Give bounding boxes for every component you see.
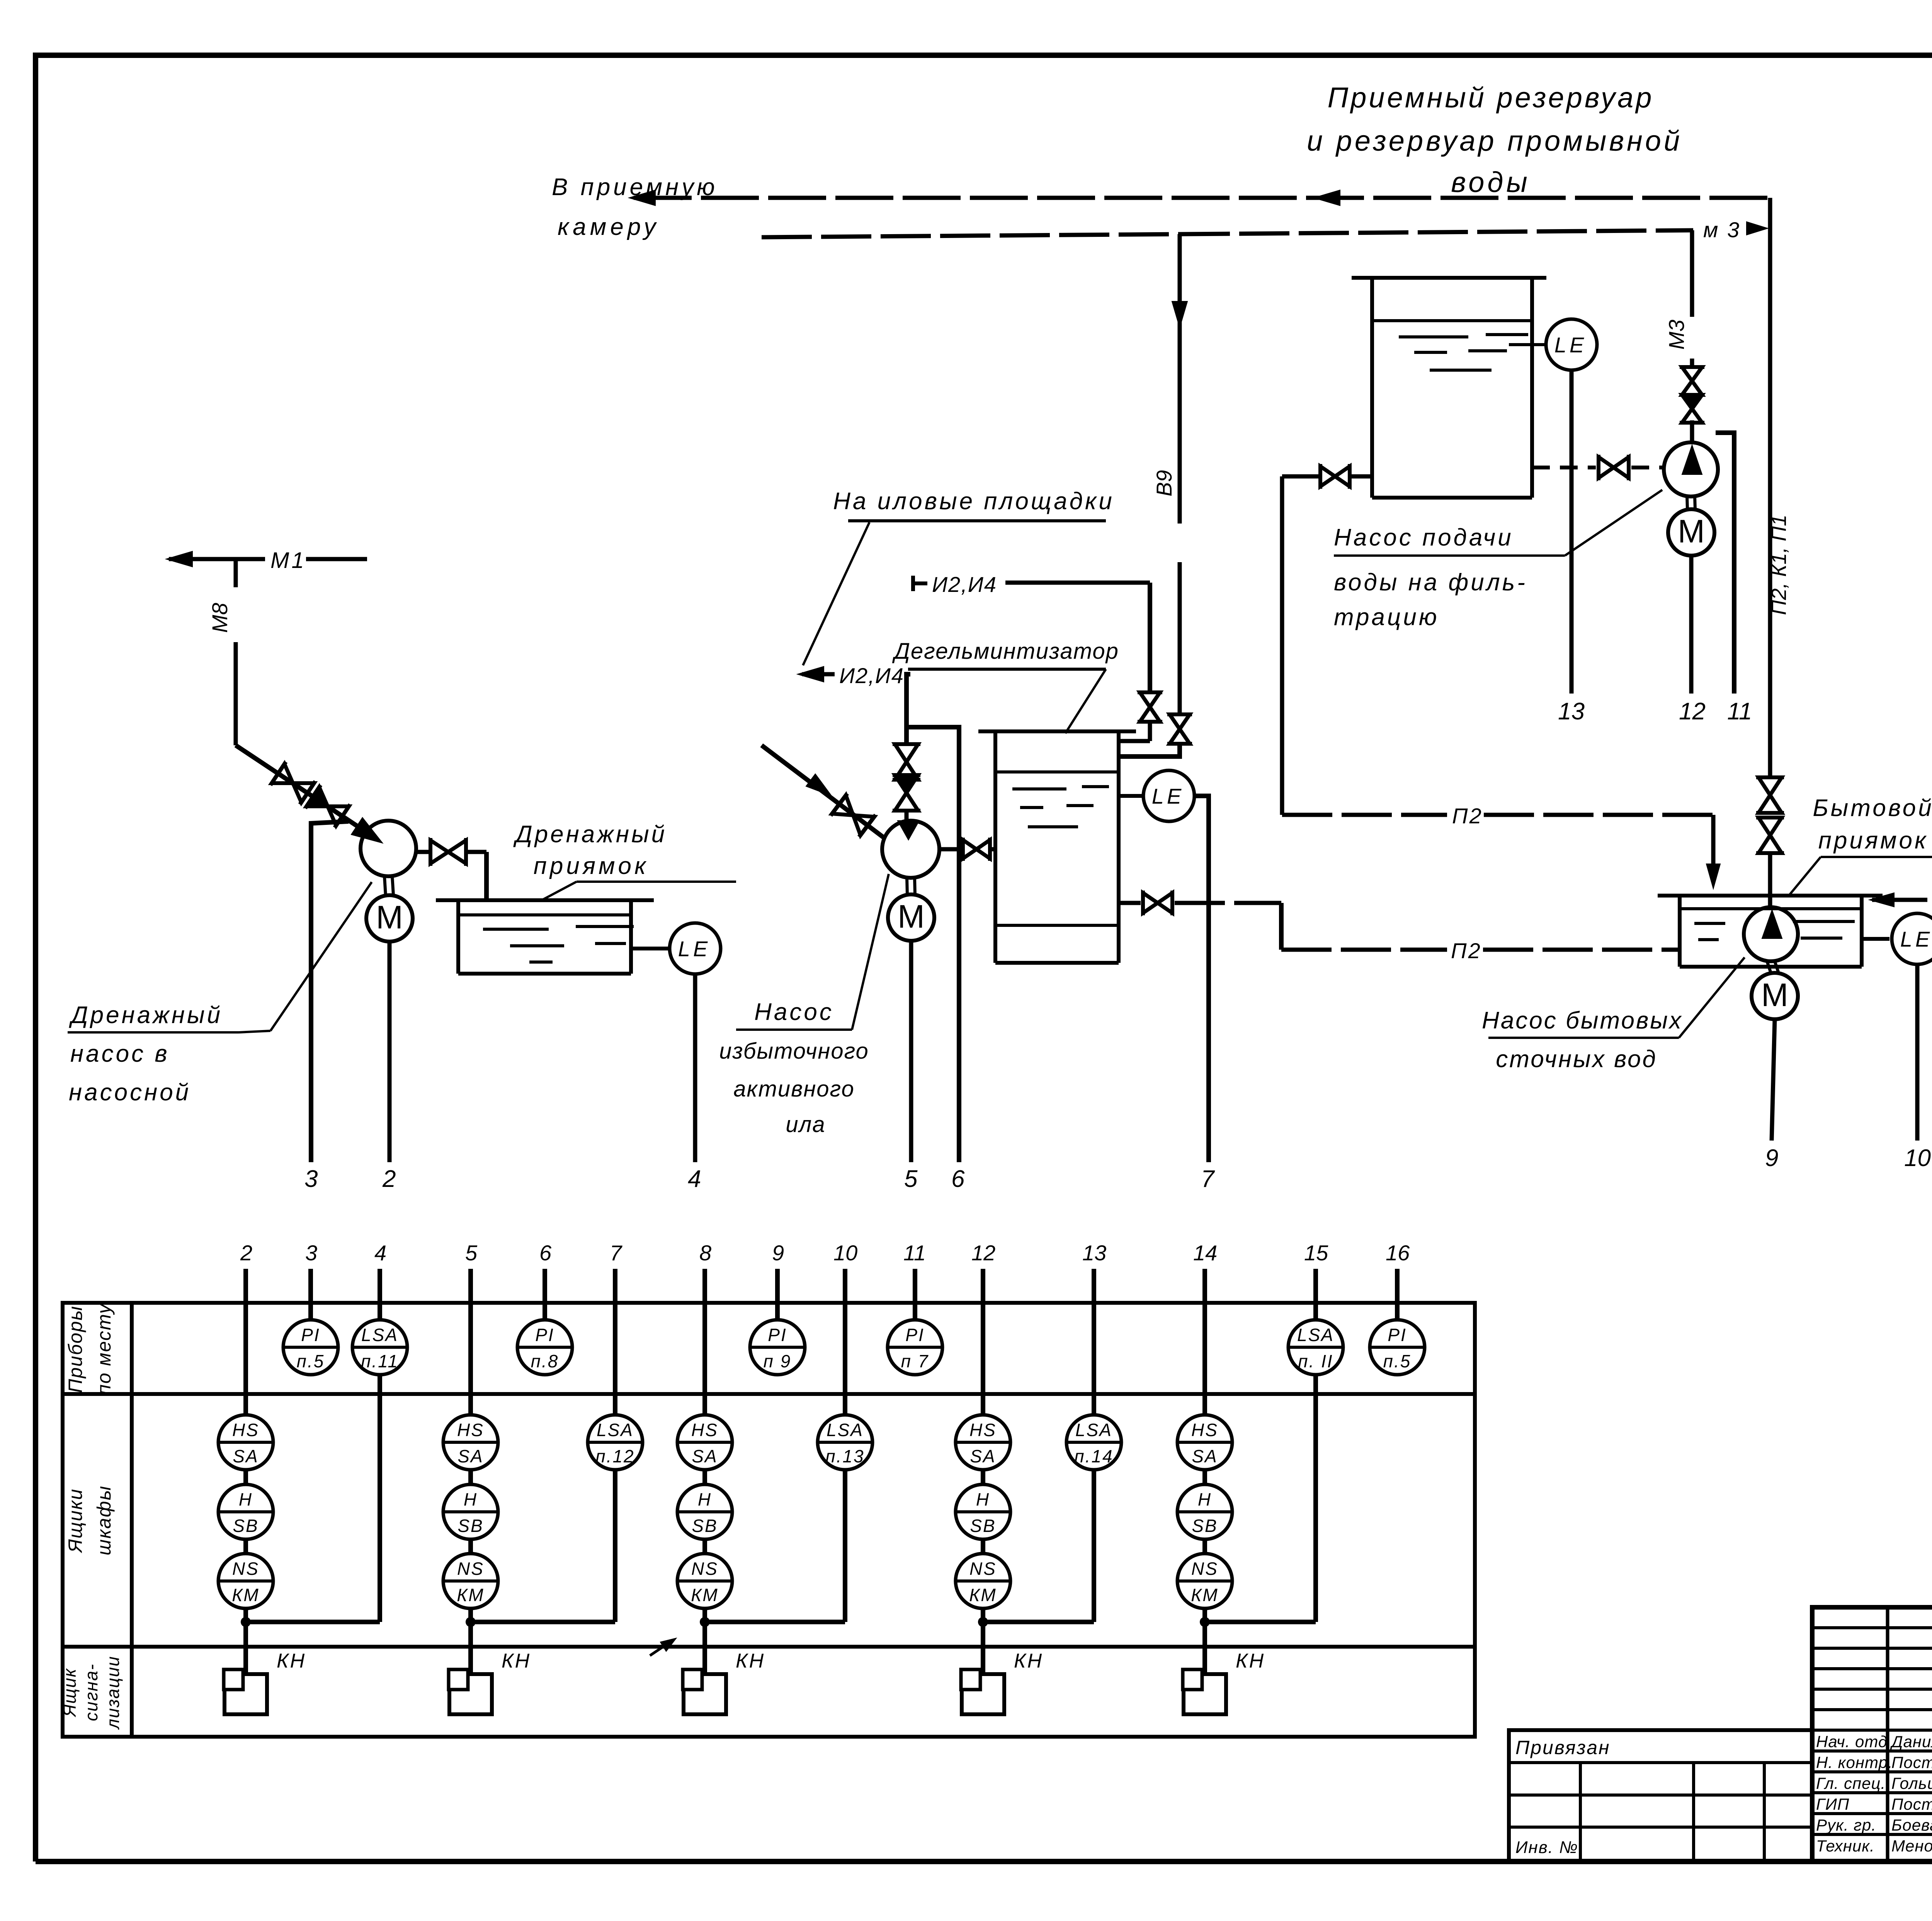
title block main outline	[1812, 1607, 1932, 1861]
wire column 15	[1313, 1269, 1318, 1320]
wire col14 a	[1202, 1470, 1207, 1484]
svg-text:п.12: п.12	[595, 1446, 634, 1466]
tank резервуар промывной воды	[1352, 276, 1546, 280]
svg-text:9: 9	[772, 1241, 784, 1265]
svg-text:SА: SА	[692, 1446, 718, 1466]
svg-text:КН: КН	[502, 1650, 531, 1672]
svg-text:Нач. отд: Нач. отд	[1816, 1732, 1888, 1751]
wire В приемную камеру main return line	[634, 196, 1770, 200]
wire col12 a	[981, 1470, 985, 1484]
instrument LE of left priyamok	[631, 947, 670, 950]
left attach table	[1509, 1730, 1812, 1861]
table label column divider	[130, 1303, 134, 1737]
underline На иловые площадки	[848, 519, 1106, 522]
wire col5 a	[468, 1470, 473, 1484]
svg-text:п.8: п.8	[531, 1351, 559, 1371]
arrow into pump P1	[351, 818, 383, 843]
pump P2 насос избыточного активного ила	[882, 821, 939, 878]
svg-text:РI: РI	[301, 1325, 320, 1345]
wire node 2 from motor P1	[388, 942, 392, 1162]
wire column 16	[1395, 1269, 1400, 1320]
arrow on В9 branch	[1172, 301, 1187, 328]
valve receiving tank left	[1320, 466, 1335, 486]
svg-text:SА: SА	[457, 1446, 483, 1466]
junction col12	[978, 1617, 988, 1627]
svg-text:Насос бытовых: Насос бытовых	[1482, 1007, 1683, 1034]
junction col2	[241, 1617, 251, 1627]
svg-text:12: 12	[1679, 698, 1706, 725]
table frame instrument strip	[63, 1303, 1475, 1737]
svg-text:Рук. гр.: Рук. гр.	[1816, 1816, 1876, 1834]
wire col4 down	[378, 1375, 382, 1622]
svg-text:На иловые площадки: На иловые площадки	[833, 488, 1114, 515]
svg-text:п 9: п 9	[764, 1351, 792, 1371]
svg-text:сточных вод: сточных вод	[1496, 1046, 1657, 1073]
svg-text:КН: КН	[277, 1650, 306, 1672]
valve on П2К1П1 riser upper	[1759, 777, 1782, 795]
svg-text:4: 4	[374, 1241, 386, 1265]
svg-text:Приемный резервуар: Приемный резервуар	[1328, 82, 1654, 114]
svg-text:М: М	[376, 899, 403, 935]
wire col2 c	[243, 1608, 248, 1674]
wire column 9	[775, 1269, 780, 1320]
svg-text:лизации: лизации	[103, 1656, 123, 1730]
svg-text:В9: В9	[1152, 470, 1176, 497]
svg-text:10: 10	[1904, 1145, 1931, 1171]
wire node 5	[909, 941, 913, 1162]
leader underline Дренажный насос	[68, 1031, 239, 1034]
svg-text:Насос: Насос	[754, 999, 834, 1025]
leader Дегельминтизатор	[1065, 669, 1106, 733]
valve P1 discharge	[430, 840, 448, 864]
svg-text:КМ: КМ	[691, 1585, 718, 1605]
arrow П2 into tank	[1706, 864, 1720, 889]
svg-text:П2: П2	[1451, 938, 1482, 963]
junction col5	[466, 1617, 476, 1627]
wire link col12-col13	[988, 1620, 1094, 1624]
svg-text:7: 7	[1201, 1166, 1215, 1192]
wire node 3 riser	[311, 821, 349, 1162]
svg-text:по месту: по месту	[93, 1303, 115, 1395]
svg-text:5: 5	[465, 1241, 478, 1265]
svg-text:Бытовой: Бытовой	[1813, 795, 1932, 821]
svg-text:Инв. №: Инв. №	[1515, 1838, 1578, 1857]
arrow М3 into riser	[1751, 226, 1759, 231]
arrow in pump P3	[1682, 445, 1702, 474]
svg-text:П2, К1, П1: П2, К1, П1	[1767, 515, 1791, 615]
svg-text:М8: М8	[207, 603, 232, 633]
svg-text:16: 16	[1386, 1241, 1410, 1265]
wire col8 b	[702, 1539, 707, 1554]
instrument NS/KM col2	[218, 1554, 273, 1608]
wire node 4 from LE	[693, 974, 697, 1162]
pump P1 дренажный насос	[361, 821, 416, 876]
wire column 6	[543, 1269, 547, 1320]
svg-text:Гл. спец.: Гл. спец.	[1816, 1774, 1886, 1792]
svg-text:п.13: п.13	[825, 1446, 864, 1466]
svg-text:избыточного: избыточного	[719, 1039, 869, 1064]
svg-text:LE: LE	[678, 937, 711, 961]
svg-text:НS: НS	[691, 1420, 718, 1440]
wire И2И4 into tank	[1119, 739, 1150, 743]
valve gate М3 riser	[1682, 367, 1702, 381]
wire М1 outfall	[169, 557, 265, 561]
svg-text:SВ: SВ	[233, 1516, 259, 1536]
wire П2 entry into бытовой приямок	[1711, 815, 1716, 865]
wire column 7	[613, 1269, 617, 1415]
svg-text:п.14: п.14	[1074, 1446, 1113, 1466]
svg-text:9: 9	[1765, 1145, 1778, 1171]
svg-text:2: 2	[382, 1166, 396, 1192]
valve check М3 riser	[1682, 395, 1702, 409]
valve P3 suction	[1599, 457, 1614, 478]
instrument HS/SA col2	[218, 1415, 273, 1470]
svg-text:И2,И4: И2,И4	[932, 572, 997, 597]
pump P3 насос подачи воды	[1664, 442, 1718, 496]
wire column 3	[308, 1269, 313, 1320]
instrument LSA п.14 col13	[1066, 1415, 1121, 1470]
svg-text:РI: РI	[905, 1325, 924, 1345]
svg-text:LSА: LSА	[1075, 1420, 1112, 1440]
svg-text:NS: NS	[1191, 1559, 1218, 1579]
wire node 13	[1570, 370, 1574, 694]
instrument HS/SA col8	[677, 1415, 732, 1470]
wire П1 into pump P4	[1768, 896, 1772, 909]
svg-text:Дренажный: Дренажный	[513, 821, 667, 848]
svg-text:м 3: м 3	[1703, 218, 1741, 242]
tank дегельминтизатор	[978, 729, 1136, 733]
wire column 12	[981, 1269, 985, 1415]
small arrow at row divider	[650, 1640, 672, 1656]
instrument LSA п.12 col7	[588, 1415, 643, 1470]
wire col5 c	[468, 1608, 473, 1674]
instrument PI п.7 col11	[888, 1320, 942, 1375]
svg-text:И2,И4: И2,И4	[839, 663, 904, 688]
wire И2,И4 riser to pump P2	[906, 674, 910, 746]
wire col13 down	[1092, 1470, 1096, 1622]
wire column 14	[1202, 1269, 1207, 1415]
valve on В9 branch	[1170, 714, 1190, 729]
motor M of P4	[1767, 962, 1771, 974]
underline Бытовой приямок leader	[1821, 856, 1932, 858]
svg-text:активного: активного	[733, 1076, 855, 1102]
svg-text:LSА: LSА	[827, 1420, 864, 1440]
junction col14	[1200, 1617, 1210, 1627]
svg-text:камеру: камеру	[558, 214, 660, 240]
svg-text:приямок: приямок	[534, 853, 649, 879]
instrument NS/KM col14	[1177, 1554, 1232, 1608]
valve check on М8 diagonal	[306, 787, 328, 806]
instrument PI п.5 col16	[1370, 1320, 1425, 1375]
svg-text:воды: воды	[1451, 166, 1531, 198]
svg-text:и резервуар промывной: и резервуар промывной	[1307, 125, 1682, 157]
wire col8 c	[702, 1608, 707, 1674]
wire link col14-col15	[1209, 1620, 1316, 1624]
svg-text:3: 3	[305, 1241, 317, 1265]
title block vertical dividers	[1886, 1607, 1889, 1861]
svg-text:SА: SА	[233, 1446, 259, 1466]
arrow on В9 diagonal	[806, 774, 832, 796]
button КН col2	[224, 1674, 267, 1714]
svg-text:Н: Н	[239, 1489, 253, 1510]
svg-text:Постникова: Постникова	[1891, 1753, 1932, 1771]
button КН col8	[684, 1674, 726, 1714]
instrument NS/KM col5	[443, 1554, 498, 1608]
leader to pump P1	[270, 882, 372, 1031]
svg-text:LE: LE	[1554, 333, 1587, 357]
svg-text:М3: М3	[1664, 320, 1689, 350]
svg-text:РI: РI	[1388, 1325, 1406, 1345]
label И2,И4 upper start tick	[911, 576, 915, 591]
svg-text:8: 8	[699, 1241, 711, 1265]
wire М8 riser	[234, 559, 238, 587]
svg-text:11: 11	[1727, 698, 1752, 725]
instrument LE receiving tank	[1509, 343, 1545, 346]
title block upper grid rows	[1812, 1626, 1932, 1629]
instrument H/SB col5	[443, 1484, 498, 1539]
underline Насос бытовых leader	[1488, 1037, 1679, 1039]
svg-text:6: 6	[951, 1166, 965, 1192]
table row divider 2	[63, 1645, 1475, 1649]
svg-text:сигна-: сигна-	[81, 1663, 101, 1721]
underline Насос	[736, 1028, 852, 1031]
svg-text:5: 5	[904, 1166, 918, 1192]
wire node 10	[1915, 965, 1920, 1141]
valve on В9 diagonal	[832, 795, 853, 815]
svg-text:Дегельминтизатор: Дегельминтизатор	[892, 639, 1119, 664]
svg-text:трацию: трацию	[1334, 604, 1439, 631]
wire column 2	[243, 1269, 248, 1415]
tank бытовой приямок	[1658, 894, 1883, 898]
svg-text:12: 12	[971, 1241, 995, 1265]
valve P2 discharge	[963, 840, 976, 858]
valve check on И2И4 riser	[895, 775, 918, 793]
svg-text:Привязан: Привязан	[1515, 1737, 1611, 1758]
motor M of pump P1	[384, 877, 386, 896]
svg-text:РI: РI	[768, 1325, 787, 1345]
instrument LE бытовой приямок	[1862, 937, 1889, 941]
svg-text:п 7: п 7	[901, 1351, 929, 1371]
wire К1 inflow	[1869, 893, 1894, 907]
wire node 12	[1689, 556, 1694, 694]
svg-text:Меновщикова: Меновщикова	[1891, 1837, 1932, 1855]
junction col8	[700, 1617, 710, 1627]
wire col14 c	[1202, 1608, 1207, 1674]
wire М1 stub right	[306, 557, 367, 561]
wire column 13	[1092, 1269, 1096, 1415]
svg-text:10: 10	[833, 1241, 857, 1265]
valve on П2К1П1 riser lower	[1759, 818, 1782, 835]
svg-text:КН: КН	[736, 1650, 765, 1672]
instrument NS/KM col8	[677, 1554, 732, 1608]
instrument H/SB col12	[956, 1484, 1010, 1539]
svg-text:п.5: п.5	[1383, 1351, 1412, 1371]
wire М3 riser from pump P3	[1690, 230, 1694, 317]
svg-text:14: 14	[1193, 1241, 1217, 1265]
valve gate on И2И4 riser	[895, 744, 918, 762]
wire P1 discharge to tank	[416, 850, 432, 854]
svg-text:НS: НS	[1191, 1420, 1218, 1440]
svg-text:КМ: КМ	[232, 1585, 259, 1605]
wire col7 down	[613, 1470, 617, 1622]
leader На иловые площадки	[803, 522, 869, 665]
svg-text:Н. контр.: Н. контр.	[1816, 1753, 1893, 1771]
instrument HS/SA col12	[956, 1415, 1010, 1470]
wire col8 a	[702, 1470, 707, 1484]
arrow mid return line	[1314, 190, 1340, 206]
pump P4 насос бытовых сточных вод	[1744, 907, 1798, 961]
instrument LE дегельминтизатор	[1119, 794, 1143, 798]
svg-text:LSА: LSА	[361, 1325, 398, 1345]
svg-text:Ящики: Ящики	[65, 1488, 86, 1554]
svg-text:SВ: SВ	[692, 1516, 718, 1536]
instrument LSA п.11 col15	[1288, 1320, 1343, 1375]
svg-text:ГИП: ГИП	[1816, 1795, 1849, 1813]
valve gate on М8 diagonal	[272, 764, 293, 783]
arrow to receiving chamber (left tip)	[629, 190, 655, 206]
svg-text:Постникова: Постникова	[1891, 1795, 1932, 1813]
wire column 4	[378, 1269, 382, 1320]
arrow into pump P2 top	[898, 821, 919, 840]
svg-text:насосной: насосной	[69, 1079, 191, 1106]
svg-text:М: М	[1678, 513, 1705, 549]
svg-text:11: 11	[903, 1241, 926, 1265]
table row divider 1	[63, 1392, 1475, 1396]
arrow in pump P4	[1762, 910, 1782, 938]
svg-text:3: 3	[304, 1166, 318, 1192]
svg-text:6: 6	[539, 1241, 552, 1265]
underline Дегельминтизатор	[908, 668, 1106, 671]
svg-text:приямок: приямок	[1818, 827, 1928, 854]
svg-text:NS: NS	[691, 1559, 718, 1579]
svg-text:SВ: SВ	[1192, 1516, 1218, 1536]
svg-text:SВ: SВ	[970, 1516, 996, 1536]
svg-text:КН: КН	[1014, 1650, 1043, 1672]
svg-text:Дренажный: Дренажный	[69, 1002, 223, 1028]
svg-text:НS: НS	[457, 1420, 484, 1440]
svg-text:Техник.: Техник.	[1816, 1837, 1875, 1855]
svg-text:13: 13	[1082, 1241, 1106, 1265]
wire column 5	[468, 1269, 473, 1415]
wire P2 discharge to tank	[939, 847, 963, 852]
wire node 11 from P3	[1716, 433, 1734, 694]
svg-text:SА: SА	[1192, 1446, 1218, 1466]
leader Дренажный приямок	[577, 881, 736, 883]
svg-text:NS: NS	[969, 1559, 997, 1579]
instrument LSA п.11 col4	[352, 1320, 407, 1375]
motor M of P3	[1687, 496, 1687, 509]
svg-text:LE: LE	[1900, 927, 1932, 951]
wire col5 b	[468, 1539, 473, 1554]
wire col14 b	[1202, 1539, 1207, 1554]
suction dashed from tank to P3	[1532, 466, 1596, 469]
svg-text:LSА: LSА	[1297, 1325, 1334, 1345]
wire М8 diagonal to pump P1	[236, 745, 373, 836]
underline Насос подачи leader	[1334, 554, 1565, 557]
instrument H/SB col2	[218, 1484, 273, 1539]
wire И2,И4 outfall arrow (pump P2 discharge)	[798, 666, 824, 682]
svg-text:Ящик: Ящик	[60, 1668, 80, 1718]
wire column 10	[843, 1269, 847, 1415]
wire node 9	[1772, 1019, 1775, 1141]
svg-text:Н: Н	[698, 1489, 712, 1510]
svg-text:4: 4	[688, 1166, 701, 1192]
svg-text:РI: РI	[535, 1325, 554, 1345]
wire В9 into tank	[1119, 744, 1180, 756]
wire М3 header line	[762, 234, 1180, 237]
wire node 7	[1195, 796, 1209, 1162]
wire link col2-col4	[250, 1620, 380, 1624]
svg-text:НS: НS	[232, 1420, 259, 1440]
wire column 8	[702, 1269, 707, 1415]
svg-text:2: 2	[240, 1241, 252, 1265]
wire П2 upper run	[1282, 813, 1447, 817]
wire В9 branch from header	[1178, 234, 1182, 524]
button КН col14	[1184, 1674, 1226, 1714]
svg-text:SА: SА	[970, 1446, 996, 1466]
svg-text:М: М	[898, 898, 925, 935]
svg-text:Н: Н	[464, 1489, 478, 1510]
instrument HS/SA col5	[443, 1415, 498, 1470]
svg-text:шкафы: шкафы	[93, 1485, 115, 1555]
svg-text:п. II: п. II	[1298, 1351, 1333, 1371]
instrument PI п.8 col6	[517, 1320, 572, 1375]
wire П2,К1,П1 riser	[1768, 198, 1772, 776]
instrument PI п.5 col3	[283, 1320, 338, 1375]
svg-text:Насос подачи: Насос подачи	[1334, 524, 1514, 551]
svg-text:7: 7	[610, 1241, 622, 1265]
instrument NS/KM col12	[956, 1554, 1010, 1608]
instrument H/SB col8	[677, 1484, 732, 1539]
wire link col5-col7	[475, 1620, 615, 1624]
svg-text:LSА: LSА	[597, 1420, 634, 1440]
svg-text:П2: П2	[1452, 804, 1483, 828]
valve дегельминтизатор drain	[1143, 893, 1158, 913]
svg-text:п.5: п.5	[297, 1351, 325, 1371]
wire П2 loop vertical	[1280, 476, 1284, 815]
svg-text:15: 15	[1304, 1241, 1328, 1265]
svg-text:Приборы: Приборы	[65, 1306, 86, 1393]
wire И2,И4 upper line	[1005, 581, 1150, 585]
button КН col5	[449, 1674, 492, 1714]
wire col2 a	[243, 1470, 248, 1484]
arrow М1 left tip	[166, 551, 192, 567]
svg-text:НS: НS	[969, 1420, 997, 1440]
svg-text:13: 13	[1558, 698, 1585, 725]
wire В9 diagonal into P2	[762, 745, 885, 838]
svg-text:SВ: SВ	[457, 1516, 483, 1536]
wire col10 down	[843, 1470, 847, 1622]
svg-text:М1: М1	[270, 548, 306, 573]
wire from П2 loop to receiving tank	[1282, 474, 1320, 479]
svg-text:п.11: п.11	[361, 1351, 399, 1371]
instrument PI п.9 col9	[750, 1320, 805, 1375]
svg-text:Н: Н	[1198, 1489, 1212, 1510]
svg-text:М: М	[1761, 977, 1788, 1013]
svg-text:КМ: КМ	[1191, 1585, 1218, 1605]
svg-text:Боева: Боева	[1891, 1816, 1932, 1834]
instrument HS/SA col14	[1177, 1415, 1232, 1470]
svg-text:NS: NS	[232, 1559, 259, 1579]
svg-text:NS: NS	[457, 1559, 484, 1579]
wire П2 drain from дегельминтизатор	[1119, 901, 1141, 905]
svg-text:Н: Н	[976, 1489, 990, 1510]
svg-text:КМ: КМ	[457, 1585, 484, 1605]
wire col12 b	[981, 1539, 985, 1554]
signature rows	[1812, 1729, 1932, 1732]
tank дренажный приямок left	[436, 898, 654, 902]
instrument LSA п.13 col10	[818, 1415, 872, 1470]
